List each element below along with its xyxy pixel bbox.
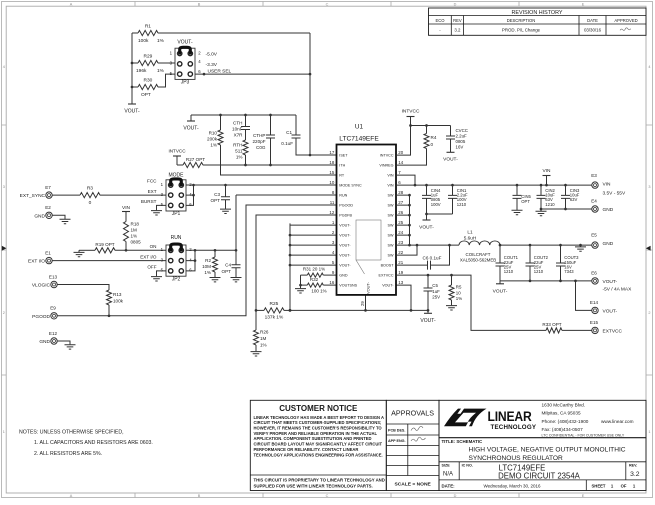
junction on VOUT- bus at R30 (131, 86, 134, 89)
VOUT- power symbol at COUT rail (493, 281, 508, 295)
wire E1 to JP2 pin 3 (52, 260, 166, 262)
svg-text:EXTVCC: EXTVCC (379, 274, 394, 278)
capacitor C4 (222, 250, 241, 277)
svg-text:VIN: VIN (603, 182, 612, 188)
svg-text:20: 20 (398, 150, 403, 155)
VIN power symbol at R18 (122, 205, 131, 222)
svg-text:BURST: BURST (141, 199, 157, 204)
svg-text:R25: R25 (269, 301, 278, 307)
svg-text:2.2uF: 2.2uF (456, 134, 468, 139)
svg-text:TECHNOLOGY APPLICATIONS ENGINE: TECHNOLOGY APPLICATIONS ENGINEERING FOR … (254, 452, 383, 457)
svg-text:R13: R13 (113, 292, 122, 297)
svg-text:RT: RT (339, 174, 345, 178)
capacitor CIN2 (537, 185, 556, 209)
svg-text:VOUT-: VOUT- (420, 318, 436, 324)
svg-text:EXTVCC: EXTVCC (603, 329, 623, 335)
svg-text:4: 4 (3, 65, 5, 69)
capacitor C6 (boost) (396, 245, 450, 270)
svg-text:NOTES: UNLESS OTHERWISE SPECIF: NOTES: UNLESS OTHERWISE SPECIFIED, (19, 429, 124, 435)
svg-text:SHEET: SHEET (592, 483, 606, 488)
connector JP3 (170, 40, 232, 86)
svg-text:7343: 7343 (564, 269, 574, 274)
svg-text:R26: R26 (260, 330, 269, 335)
wire JP1 common to MODE/SYNC pin 10 (186, 184, 337, 186)
capacitor CIN4 (422, 185, 441, 214)
svg-text:CUSTOMER NOTICE: CUSTOMER NOTICE (279, 404, 358, 413)
svg-text:REV: REV (453, 18, 462, 23)
svg-text:3.2: 3.2 (630, 471, 640, 478)
svg-text:R19 OPT: R19 OPT (95, 242, 114, 247)
svg-text:E14: E14 (590, 300, 599, 305)
svg-text:THIS CIRCUIT IS PROPRIETARY TO: THIS CIRCUIT IS PROPRIETARY TO LINEAR TE… (254, 478, 385, 483)
ground at E12 (57, 341, 75, 349)
svg-text:VOUT-: VOUT- (124, 109, 140, 115)
svg-text:200k: 200k (207, 137, 218, 142)
ground at R2 (210, 278, 221, 282)
ground at C3 (220, 209, 231, 213)
svg-text:E12: E12 (49, 331, 58, 336)
svg-text:VIN: VIN (122, 205, 131, 211)
capacitor COUT3 (556, 245, 579, 281)
svg-text:1%: 1% (260, 343, 267, 348)
svg-text:EXT_SYNC: EXT_SYNC (20, 193, 46, 199)
wire SW rail to L1 (396, 244, 459, 246)
svg-text:5.6uH: 5.6uH (464, 236, 477, 241)
svg-text:63V: 63V (570, 197, 578, 202)
svg-text:VOUT-: VOUT- (382, 284, 394, 288)
svg-text:GND: GND (39, 339, 50, 345)
svg-text:Fax: (408)434-0507: Fax: (408)434-0507 (542, 427, 584, 432)
svg-text:100k: 100k (138, 38, 149, 44)
svg-text:R10: R10 (209, 131, 218, 136)
svg-text:SCALE = NONE: SCALE = NONE (394, 482, 431, 488)
terminal E1 EXT I/O (28, 251, 52, 265)
svg-text:L1: L1 (467, 230, 473, 235)
svg-text:C5: C5 (432, 283, 438, 288)
terminal E9 PGOOD (32, 306, 57, 320)
svg-text:C6 0.1uF: C6 0.1uF (423, 256, 442, 261)
resistor R1 (132, 24, 310, 44)
ground at JP1 pin 5 (151, 205, 166, 215)
ground at R31/R32 (295, 289, 306, 293)
svg-text:SW: SW (388, 234, 394, 238)
svg-text:R27 OPT: R27 OPT (186, 157, 205, 162)
revision history table (429, 8, 647, 35)
svg-text:INTVCC: INTVCC (380, 154, 394, 158)
svg-text:1M: 1M (260, 336, 267, 341)
svg-text:PROD. P/L Change: PROD. P/L Change (502, 28, 541, 33)
resistor RTH (233, 140, 248, 165)
ground at E2 (52, 215, 70, 223)
svg-text:511: 511 (235, 148, 243, 153)
svg-text:1%: 1% (157, 38, 165, 44)
ground at C4 (231, 278, 242, 282)
svg-text:1%: 1% (157, 68, 165, 74)
svg-text:VIN: VIN (387, 174, 393, 178)
svg-text:Wednesday, March 30, 2016: Wednesday, March 30, 2016 (483, 483, 541, 488)
resistor R4 (396, 126, 437, 166)
svg-text:VIN: VIN (543, 168, 552, 174)
wire node ISET vertical from R1/USER SEL down to pin 17 (309, 33, 311, 155)
svg-text:C4: C4 (225, 263, 231, 268)
svg-text:N/A: N/A (443, 471, 453, 477)
svg-text:VOUT-: VOUT- (339, 234, 351, 238)
VOUT- power symbol at CVCC (443, 152, 458, 162)
svg-text:0: 0 (89, 200, 92, 206)
svg-text:JP1: JP1 (172, 211, 181, 217)
wire exposed pad pin 29 (365, 295, 367, 311)
svg-text:E5: E5 (591, 233, 597, 238)
svg-text:R2: R2 (205, 258, 211, 263)
svg-text:3.5V - 55V: 3.5V - 55V (603, 190, 626, 196)
terminal E5 GND (591, 233, 614, 249)
wire PGDFB pin 12 to divider (256, 215, 337, 310)
approvals box (386, 400, 439, 490)
svg-text:R5: R5 (456, 285, 462, 290)
svg-text:Phone: (408)432-1900: Phone: (408)432-1900 (542, 419, 589, 424)
wire JP2 common to RUN pin 8 (186, 195, 337, 250)
svg-text:CTH: CTH (233, 120, 242, 125)
svg-text:PGOOD: PGOOD (339, 204, 353, 208)
svg-text:14: 14 (398, 160, 403, 165)
wire E9/R13 to PGOOD pin 11 (57, 205, 336, 316)
ground at R19 (74, 250, 85, 256)
svg-text:D: D (454, 2, 457, 6)
wire JP2 pins 4/6 tie (186, 250, 195, 271)
svg-text:A: A (70, 494, 73, 498)
resistor R3 (52, 186, 166, 207)
resistor R18 (124, 222, 142, 251)
svg-text:VOUT-: VOUT- (177, 40, 193, 46)
svg-text:VOUT-: VOUT- (339, 244, 351, 248)
resistor R2 (202, 250, 217, 277)
svg-text:E: E (582, 2, 585, 6)
svg-text:16: 16 (329, 280, 334, 285)
svg-text:SW: SW (388, 214, 394, 218)
svg-text:OPT: OPT (222, 269, 232, 274)
VOUT- power symbol at bottom rail (420, 310, 436, 323)
svg-text:E4: E4 (591, 199, 597, 204)
svg-text:R30: R30 (143, 78, 152, 84)
svg-text:VOUT-: VOUT- (339, 264, 351, 268)
terminal E13 VLOGIC (32, 274, 58, 288)
svg-text:SW: SW (388, 224, 394, 228)
svg-text:1. ALL CAPACITORS AND RESISTOR: 1. ALL CAPACITORS AND RESISTORS ARE 0603… (34, 440, 153, 446)
svg-text:PCB DES.: PCB DES. (388, 428, 405, 432)
wire CIN4/CIN1 bottoms (427, 213, 453, 215)
svg-text:VOUT-: VOUT- (419, 225, 434, 231)
svg-text:196k: 196k (136, 68, 147, 74)
wire VIN rail pin 6 to E3 (396, 184, 592, 186)
svg-text:D: D (454, 494, 457, 498)
svg-text:E15: E15 (590, 320, 599, 325)
wire VOUT- pins 1-5 tie (290, 223, 337, 310)
svg-text:1210: 1210 (504, 269, 514, 274)
svg-text:R31 20 1%: R31 20 1% (303, 267, 325, 272)
capacitor C5 (424, 275, 441, 310)
svg-text:VINREG: VINREG (379, 164, 393, 168)
svg-text:R1: R1 (145, 24, 151, 30)
wire SW pins tie (396, 195, 410, 245)
svg-text:SW: SW (388, 204, 394, 208)
svg-text:25V: 25V (432, 295, 440, 300)
svg-text:TECHNOLOGY: TECHNOLOGY (491, 424, 537, 431)
svg-text:VOUT-: VOUT- (443, 157, 458, 163)
svg-text:B: B (198, 2, 201, 6)
svg-text:13: 13 (398, 280, 403, 285)
svg-text:VLOGIC: VLOGIC (32, 283, 51, 289)
svg-text:19: 19 (398, 270, 403, 275)
svg-text:1M: 1M (131, 228, 138, 233)
svg-text:OPT: OPT (211, 198, 221, 203)
svg-text:23: 23 (398, 240, 403, 245)
svg-text:E3: E3 (591, 173, 597, 178)
svg-text:2. ALL RESISTORS ARE 5%.: 2. ALL RESISTORS ARE 5%. (34, 451, 102, 457)
svg-text:IC NO.: IC NO. (462, 464, 473, 468)
svg-text:APPLICATION. COMPONENT SUBSTI: APPLICATION. COMPONENT SUBSTITUTION AND … (254, 436, 372, 441)
terminal E15 EXTVCC (590, 320, 623, 335)
Linear Technology logo (439, 400, 646, 437)
svg-text:CTHP: CTHP (253, 133, 266, 138)
svg-text:ISET: ISET (339, 154, 348, 158)
svg-text:2: 2 (648, 311, 650, 315)
svg-text:10: 10 (456, 290, 461, 295)
svg-text:PERFORMANCE OR RELIABILITY. C: PERFORMANCE OR RELIABILITY. CONTACT LINE… (254, 447, 359, 452)
svg-text:E1: E1 (45, 251, 51, 256)
junction CTHP bottom on ITH rail (269, 164, 272, 167)
VIN power symbol at rail (543, 168, 552, 185)
svg-text:DATE: DATE (587, 18, 598, 23)
ground at R5 (446, 306, 457, 310)
resistor R5 (449, 275, 462, 305)
resistor R32 (301, 277, 337, 293)
resistor R27 (177, 157, 337, 168)
svg-text:-5V / 4A MAX: -5V / 4A MAX (603, 287, 633, 293)
junction pin6 (203, 73, 206, 76)
ground at CIN2 (536, 209, 547, 216)
wire SW pin 22 tie (396, 245, 417, 255)
capacitor CTH (232, 115, 250, 140)
svg-text:16V: 16V (456, 144, 464, 149)
svg-text:E2: E2 (45, 205, 51, 210)
wire VOUT- bus to R1/R29/R30 (131, 33, 133, 104)
wire branch to E14 (576, 281, 592, 311)
terminal E14 VOUT- (590, 300, 618, 315)
svg-text:R29: R29 (143, 54, 152, 60)
svg-text:APPROVALS: APPROVALS (391, 408, 434, 417)
svg-text:JP3: JP3 (181, 80, 190, 86)
svg-text:10nF: 10nF (232, 126, 243, 131)
svg-text:R33 OPT: R33 OPT (542, 322, 561, 327)
svg-text:BOOST: BOOST (381, 264, 395, 268)
svg-text:OFF: OFF (147, 265, 156, 270)
svg-text:OF: OF (621, 483, 627, 488)
svg-text:LINEAR TECHNOLOGY HAS MADE A B: LINEAR TECHNOLOGY HAS MADE A BEST EFFORT… (254, 415, 385, 420)
svg-text:LTC CONFIDENTIAL - FOR CUSTO: LTC CONFIDENTIAL - FOR CUSTOMER USE ONLY (542, 434, 625, 438)
svg-text:ITH: ITH (339, 164, 345, 168)
capacitor COUT2 (526, 245, 549, 281)
svg-text:INTVCC: INTVCC (168, 149, 186, 154)
wire compensation top rail (191, 114, 296, 116)
resistor R10 (RT set) (207, 115, 336, 175)
svg-text:APPROVED: APPROVED (614, 18, 637, 23)
svg-text:28: 28 (398, 190, 403, 195)
svg-text:OPT: OPT (141, 92, 151, 98)
svg-text:VOUT-: VOUT- (339, 254, 351, 258)
wire EXTVCC pin 19 to R33 (396, 275, 546, 330)
svg-text:100k: 100k (113, 298, 124, 303)
resistor R25 (256, 301, 290, 320)
wire R31/R32 tie to ground (300, 275, 302, 288)
terminal E7 EXT_SYNC (20, 185, 53, 199)
INTVCC power symbol at R27 (168, 149, 186, 165)
resistor R29 (132, 54, 175, 74)
svg-text:1: 1 (3, 430, 5, 434)
svg-text:0: 0 (431, 142, 434, 147)
svg-text:EXT: EXT (148, 189, 157, 194)
svg-text:OPT: OPT (521, 199, 530, 204)
svg-text:3.2: 3.2 (454, 28, 461, 33)
svg-text:C3: C3 (214, 192, 220, 197)
svg-text:15: 15 (329, 170, 334, 175)
svg-text:REV.: REV. (629, 464, 637, 468)
svg-text:GND: GND (339, 274, 348, 278)
svg-text:MODE SYNC: MODE SYNC (339, 184, 362, 188)
svg-text:26: 26 (398, 210, 403, 215)
svg-text:17: 17 (329, 150, 334, 155)
svg-text:VOUT-: VOUT- (339, 224, 351, 228)
wire JP1 pins 4/6 tie (186, 185, 194, 205)
svg-text:APP ENG.: APP ENG. (388, 439, 406, 443)
svg-text:C: C (326, 2, 329, 6)
svg-text:3: 3 (648, 185, 650, 189)
svg-text:E6: E6 (591, 270, 597, 275)
wire VOUT- bottom rail (290, 309, 428, 311)
svg-text:1%: 1% (236, 154, 243, 159)
junction USER SEL / ISET vertical (309, 73, 312, 76)
svg-text:U1: U1 (355, 124, 364, 131)
resistor R33 (542, 322, 591, 333)
svg-text:EXT I/O: EXT I/O (28, 259, 45, 265)
svg-text:SIZE: SIZE (442, 464, 451, 468)
svg-text:3: 3 (3, 185, 5, 189)
svg-text:C0G: C0G (256, 145, 266, 150)
svg-text:B: B (198, 494, 201, 498)
svg-text:10: 10 (329, 180, 334, 185)
resistor R30 (132, 74, 175, 98)
svg-text:RUN: RUN (339, 194, 347, 198)
resistor R13 (57, 285, 123, 316)
svg-text:1%: 1% (131, 234, 138, 239)
wire INTVCC to pin 20 and rail (396, 117, 451, 156)
svg-text:HIGH VOLTAGE, NEGATIVE OUTPUT: HIGH VOLTAGE, NEGATIVE OUTPUT MONOLITHIC (469, 447, 626, 454)
svg-text:COILCRAFT: COILCRAFT (466, 252, 491, 257)
svg-text:1210: 1210 (534, 269, 544, 274)
svg-text:1210: 1210 (545, 202, 555, 207)
svg-text:1%: 1% (204, 270, 211, 275)
capacitor CIN1 (448, 185, 468, 214)
svg-text:X7R: X7R (234, 132, 244, 137)
wire VOUT- pin 13 (396, 285, 411, 310)
VOUT- power symbol at compensation rail (183, 115, 199, 131)
wire USER SEL from JP3 pin 6 to ISET node (195, 73, 310, 75)
notes text (19, 429, 153, 457)
terminal E2 GND (34, 205, 52, 219)
VOUT- power symbol at CIN bottoms (419, 214, 434, 231)
terminal E6 VOUT- (591, 270, 632, 292)
resistor R26 (254, 310, 269, 351)
svg-text:E: E (582, 494, 585, 498)
svg-text:2: 2 (3, 311, 5, 315)
svg-text:137k 1%: 137k 1% (265, 315, 284, 321)
ground at JP2 pin 5 (151, 271, 166, 281)
svg-text:VOUT-: VOUT- (493, 288, 508, 294)
svg-text:24: 24 (398, 230, 403, 235)
svg-text:EXT I/O: EXT I/O (140, 254, 157, 259)
customer notice box (250, 400, 386, 490)
svg-text:CIRCUIT BOARD LAYOUT MAY SIGNI: CIRCUIT BOARD LAYOUT MAY SIGNIFICANTLY A… (254, 442, 383, 447)
svg-text:GND: GND (603, 241, 614, 247)
svg-text:LINEAR: LINEAR (488, 408, 533, 424)
svg-text:11: 11 (330, 200, 335, 205)
svg-text:LTC7149EFE: LTC7149EFE (339, 136, 379, 143)
svg-text:VOUT-: VOUT- (603, 309, 618, 315)
svg-text:VOUT-: VOUT- (366, 281, 371, 294)
ground at R26 (251, 352, 262, 356)
svg-text:E9: E9 (50, 306, 56, 311)
resistor R31 (301, 267, 337, 278)
svg-text:C: C (326, 494, 329, 498)
svg-text:SYNCHRONOUS REGULATOR: SYNCHRONOUS REGULATOR (469, 455, 564, 462)
svg-text:PGOOD: PGOOD (32, 314, 50, 320)
svg-text:4: 4 (648, 65, 650, 69)
svg-text:SW: SW (388, 254, 394, 258)
svg-text:VOUT-: VOUT- (183, 125, 199, 131)
svg-text:1uF: 1uF (432, 289, 440, 294)
svg-text:VOUT-: VOUT- (603, 279, 618, 285)
svg-text:E13: E13 (49, 274, 58, 279)
inductor L1 (459, 230, 500, 263)
capacitor CIN5 (513, 185, 532, 210)
svg-text:GND: GND (34, 213, 45, 219)
connector JP1 MODE (141, 172, 192, 217)
svg-text:22: 22 (398, 250, 403, 255)
capacitor CVCC (446, 126, 468, 153)
svg-text:E7: E7 (45, 185, 51, 190)
VOUT- power symbol below R30 bus (124, 104, 140, 115)
svg-text:XAL5050-562MEB: XAL5050-562MEB (460, 258, 496, 263)
svg-text:R32: R32 (310, 277, 319, 282)
resistor R19 (79, 242, 166, 253)
svg-text:MODE: MODE (169, 172, 185, 178)
capacitor CTHP (252, 115, 275, 165)
svg-text:RTH: RTH (233, 142, 242, 147)
svg-text:R4: R4 (431, 135, 437, 140)
svg-text:GND: GND (603, 207, 614, 213)
svg-text:100V: 100V (431, 202, 441, 207)
svg-text:R3: R3 (87, 186, 93, 192)
terminal E3 VIN (591, 173, 626, 196)
capacitor C1 (281, 115, 336, 155)
svg-text:21: 21 (398, 260, 403, 265)
svg-text:1210: 1210 (457, 202, 467, 207)
svg-text:25: 25 (398, 220, 403, 225)
svg-text:27: 27 (398, 200, 403, 205)
svg-text:RUN: RUN (171, 235, 182, 241)
svg-text:C1: C1 (286, 130, 292, 135)
terminal E4 GND (591, 199, 614, 214)
svg-text:-5.0V: -5.0V (206, 52, 218, 58)
